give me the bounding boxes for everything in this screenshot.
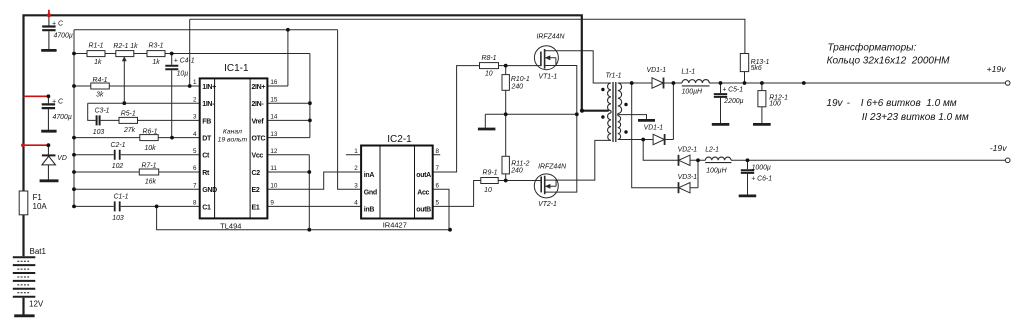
svg-text:4700µ: 4700µ: [53, 114, 72, 121]
svg-text:Трансформаторы:: Трансформаторы:: [828, 41, 917, 53]
svg-text:2IN-: 2IN-: [252, 101, 265, 108]
svg-text:2IN+: 2IN+: [252, 84, 266, 91]
svg-text:102: 102: [112, 163, 124, 170]
svg-text:8: 8: [436, 148, 440, 155]
svg-text:R10-1: R10-1: [511, 76, 530, 83]
svg-text:1: 1: [354, 148, 358, 155]
svg-text:E1: E1: [252, 204, 260, 211]
svg-text:10: 10: [485, 71, 493, 78]
svg-text:R7-1: R7-1: [142, 163, 157, 170]
svg-text:Vcc: Vcc: [252, 153, 264, 160]
svg-text:6: 6: [436, 182, 440, 189]
svg-text:4: 4: [193, 131, 197, 138]
svg-text:103: 103: [112, 215, 124, 222]
svg-text:C1: C1: [202, 204, 211, 211]
svg-text:GND: GND: [202, 187, 217, 194]
svg-text:R4-1: R4-1: [93, 77, 108, 84]
svg-text:IC2-1: IC2-1: [387, 134, 412, 145]
svg-text:1k: 1k: [94, 59, 102, 66]
svg-text:100: 100: [769, 101, 781, 108]
svg-text:11: 11: [270, 165, 277, 172]
svg-text:C2: C2: [252, 170, 261, 177]
svg-text:VD1-1: VD1-1: [647, 67, 667, 74]
svg-text:VD3-1: VD3-1: [678, 174, 698, 181]
svg-text:outB: outB: [416, 207, 431, 214]
svg-text:+ C4-1: + C4-1: [174, 57, 195, 64]
svg-text:7: 7: [436, 165, 440, 172]
svg-text:19 вольт: 19 вольт: [218, 137, 248, 144]
svg-text:3: 3: [354, 182, 358, 189]
svg-text:7: 7: [193, 182, 197, 189]
svg-text:C1-1: C1-1: [114, 194, 129, 201]
svg-text:IC1-1: IC1-1: [224, 63, 249, 74]
svg-text:1IN+: 1IN+: [202, 84, 216, 91]
svg-text:IRFZ44N: IRFZ44N: [538, 164, 566, 171]
svg-text:TL494: TL494: [220, 221, 241, 230]
svg-text:+ C5-1: + C5-1: [722, 87, 743, 94]
svg-text:1000µ: 1000µ: [752, 165, 771, 172]
svg-text:inB: inB: [364, 207, 375, 214]
svg-text:Rt: Rt: [202, 170, 210, 177]
svg-text:8: 8: [193, 200, 197, 207]
svg-text:1IN-: 1IN-: [202, 101, 215, 108]
svg-text:R8-1: R8-1: [482, 55, 497, 62]
svg-text:27k: 27k: [123, 127, 136, 134]
svg-text:Ct: Ct: [202, 153, 210, 160]
svg-text:12V: 12V: [29, 300, 44, 309]
svg-text:+19v: +19v: [987, 64, 1007, 74]
svg-text:2: 2: [354, 165, 358, 172]
svg-text:F1: F1: [33, 193, 43, 202]
svg-text:100µH: 100µH: [682, 89, 702, 96]
svg-text:19v: 19v: [826, 98, 843, 109]
svg-text:Gnd: Gnd: [364, 189, 377, 196]
svg-text:Канал: Канал: [223, 128, 242, 135]
svg-text:10: 10: [270, 182, 278, 189]
svg-text:3k: 3k: [96, 91, 104, 98]
svg-text:4700µ: 4700µ: [54, 32, 73, 39]
svg-text:1k: 1k: [152, 59, 160, 66]
svg-text:Vref: Vref: [252, 118, 265, 125]
svg-text:16k: 16k: [145, 179, 157, 186]
svg-text:VD1-1: VD1-1: [644, 124, 664, 131]
svg-text:L2-1: L2-1: [705, 146, 719, 153]
svg-text:Кольцо 32х16х12 2000НМ: Кольцо 32х16х12 2000НМ: [827, 56, 951, 67]
svg-text:100µH: 100µH: [706, 168, 726, 175]
svg-text:240: 240: [510, 168, 523, 175]
svg-text:5: 5: [193, 148, 197, 155]
svg-text:DT: DT: [202, 136, 212, 143]
svg-text:+ C: + C: [52, 20, 64, 27]
svg-text:2200µ: 2200µ: [723, 98, 743, 105]
svg-text:1: 1: [193, 79, 197, 86]
svg-text:R1-1: R1-1: [89, 43, 104, 50]
svg-text:II 23+23 витков 1.0 мм: II 23+23 витков 1.0 мм: [862, 112, 969, 123]
svg-text:E2: E2: [252, 187, 260, 194]
svg-text:3: 3: [193, 114, 197, 121]
svg-text:VD2-1: VD2-1: [678, 146, 698, 153]
svg-text:2: 2: [193, 96, 197, 103]
svg-text:R9-1: R9-1: [483, 169, 498, 176]
svg-text:OTC: OTC: [252, 136, 266, 143]
svg-text:Tr1-1: Tr1-1: [606, 73, 622, 80]
svg-text:6: 6: [193, 165, 197, 172]
svg-text:VT1-1: VT1-1: [539, 73, 558, 80]
svg-text:10µ: 10µ: [177, 70, 189, 77]
svg-text:-19v: -19v: [990, 143, 1008, 153]
svg-text:R11-2: R11-2: [511, 160, 529, 167]
svg-text:12: 12: [270, 148, 278, 155]
svg-text:VD: VD: [57, 155, 67, 162]
svg-text:10k: 10k: [144, 145, 156, 152]
svg-text:Bat1: Bat1: [30, 247, 47, 256]
svg-text:outA: outA: [416, 172, 431, 179]
svg-text:14: 14: [270, 114, 278, 121]
svg-text:VT2-1: VT2-1: [538, 201, 557, 208]
svg-text:240: 240: [511, 84, 524, 91]
svg-text:13: 13: [270, 131, 278, 138]
svg-text:inA: inA: [364, 172, 375, 179]
svg-text:R3-1: R3-1: [149, 43, 164, 50]
svg-text:L1-1: L1-1: [681, 68, 695, 75]
svg-text:5k6: 5k6: [751, 65, 762, 72]
svg-text:R6-1: R6-1: [143, 128, 158, 135]
svg-text:103: 103: [93, 129, 105, 136]
svg-text:16: 16: [270, 79, 278, 86]
svg-text:R2-1 1k: R2-1 1k: [113, 43, 138, 50]
svg-text:5: 5: [436, 200, 440, 207]
svg-text:10A: 10A: [33, 202, 48, 211]
svg-text:IR4427: IR4427: [383, 221, 407, 230]
svg-text:C2-1: C2-1: [111, 142, 126, 149]
svg-text:IRFZ44N: IRFZ44N: [537, 34, 565, 41]
svg-text:+ C6-1: + C6-1: [751, 176, 772, 183]
svg-text:9: 9: [270, 200, 274, 207]
svg-text:+ C: + C: [52, 99, 64, 106]
svg-text:4: 4: [354, 200, 358, 207]
svg-text:Acc: Acc: [417, 189, 429, 196]
svg-text:FB: FB: [202, 118, 211, 125]
svg-text:C3-1: C3-1: [95, 107, 110, 114]
svg-text:R5-1: R5-1: [121, 111, 136, 118]
svg-text:15: 15: [270, 96, 278, 103]
svg-text:I 6+6 витков 1.0 мм: I 6+6 витков 1.0 мм: [861, 98, 957, 109]
svg-text:10: 10: [484, 187, 492, 194]
